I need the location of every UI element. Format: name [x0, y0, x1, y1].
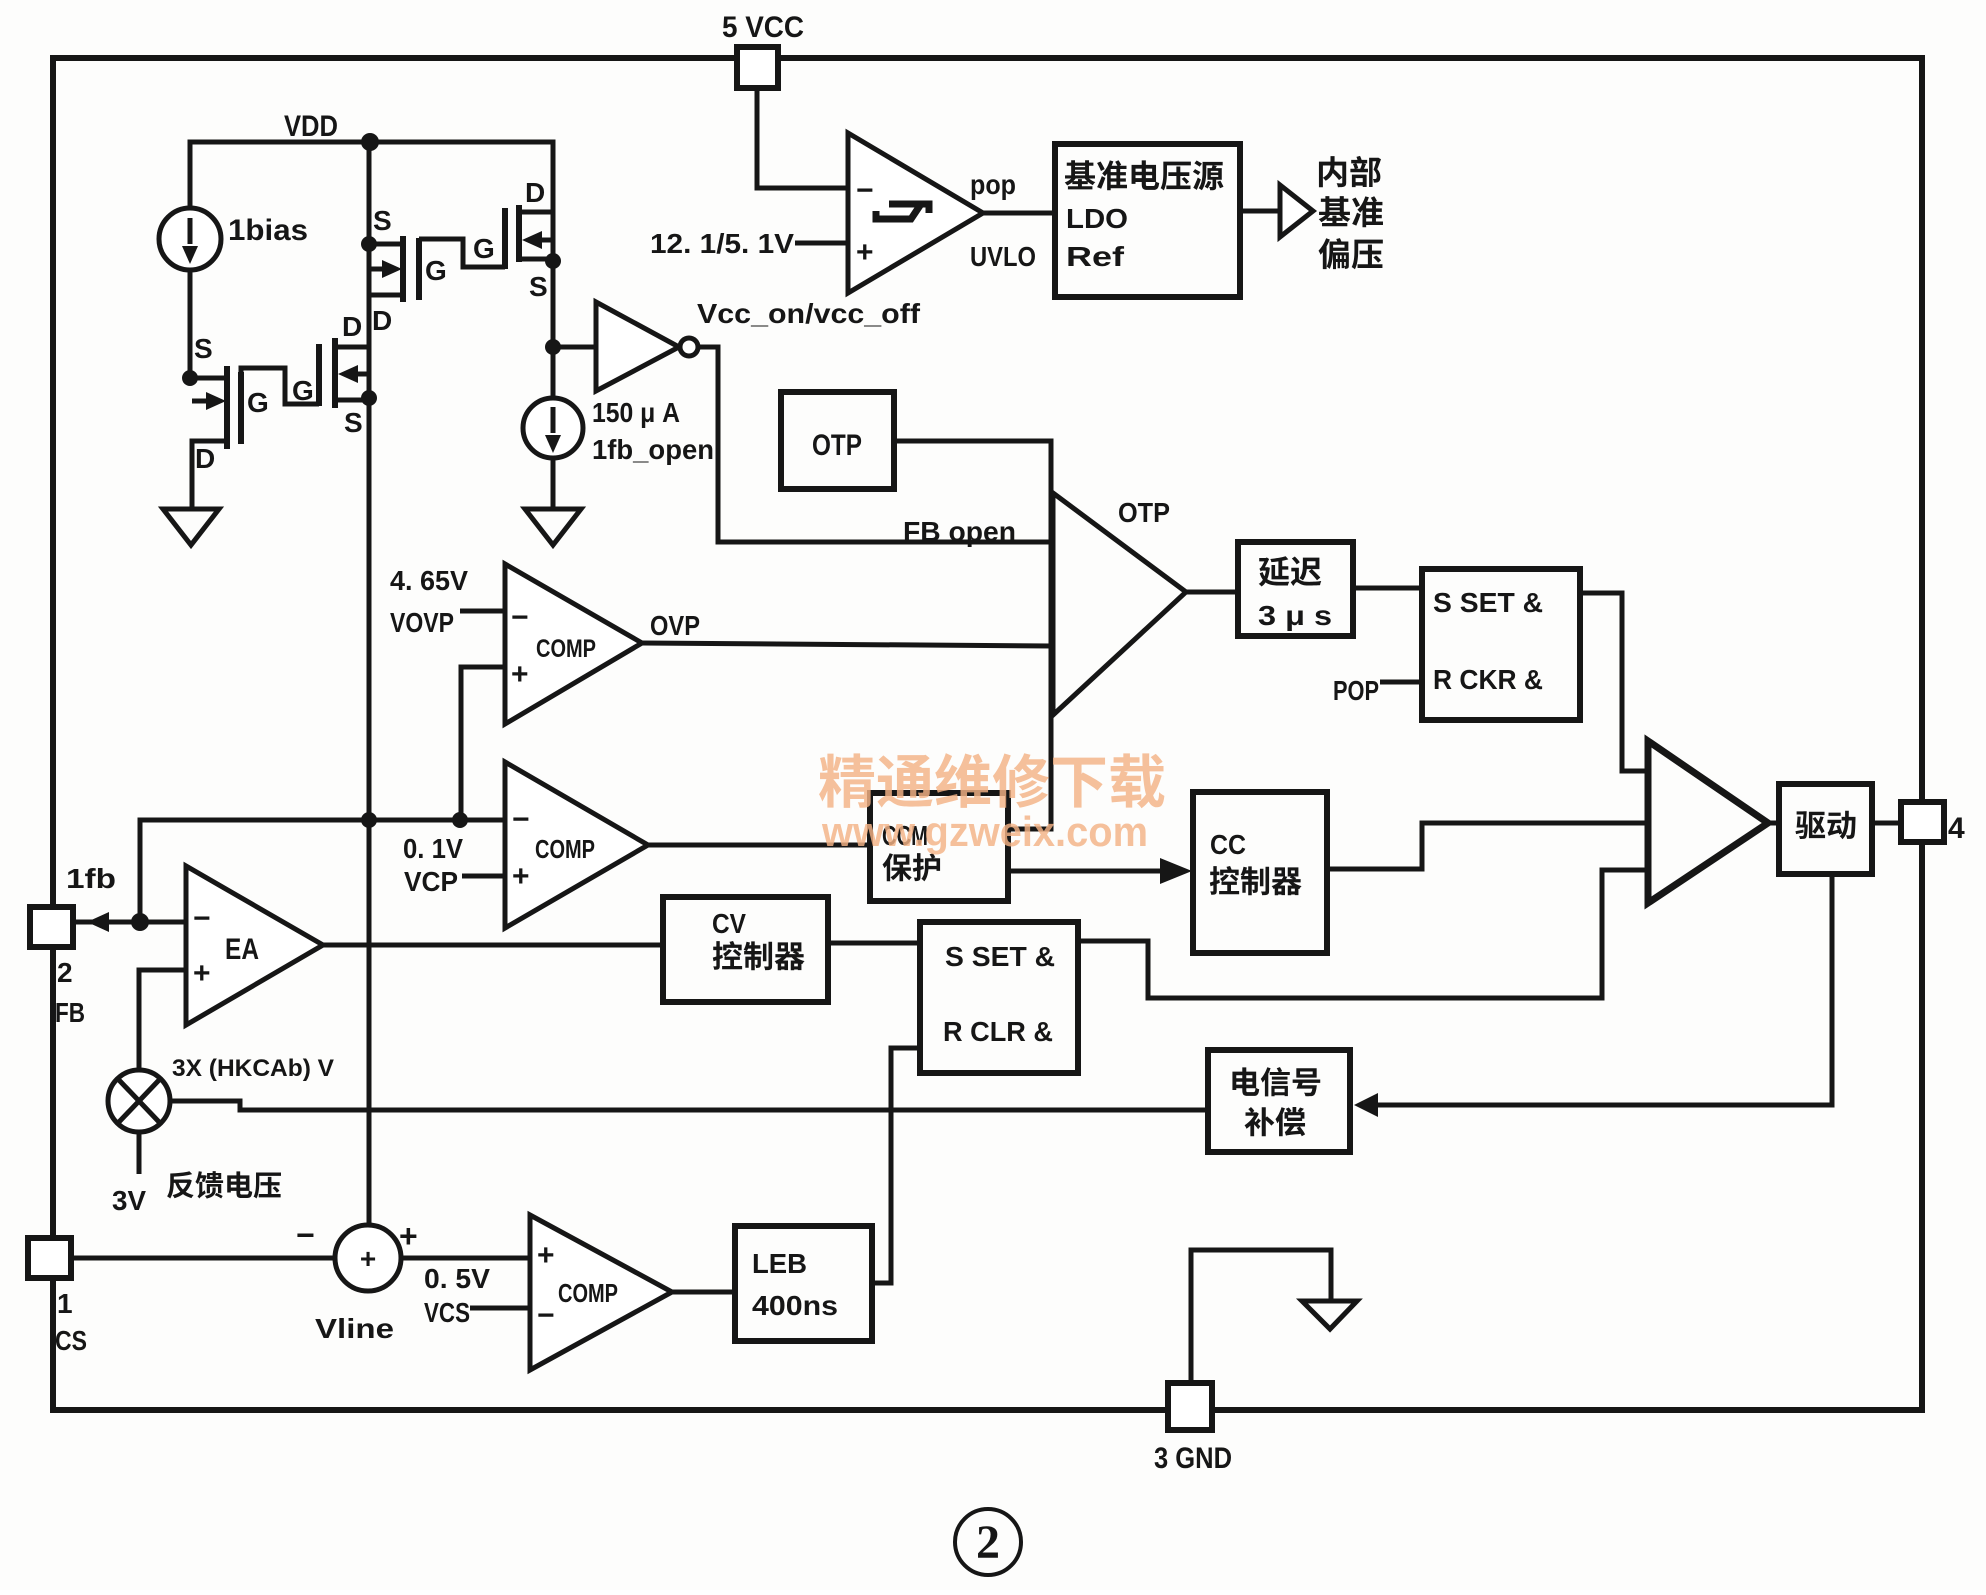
pin 4: [1901, 802, 1944, 842]
wire combiner to delay: [1186, 590, 1238, 595]
node M3 source: [361, 236, 377, 252]
wire LEB to SR2: [872, 1048, 920, 1283]
svg-text:0. 5V: 0. 5V: [424, 1263, 490, 1294]
svg-text:3V: 3V: [112, 1185, 146, 1216]
svg-text:−: −: [537, 1299, 555, 1332]
svg-text:OTP: OTP: [1118, 497, 1170, 528]
label fankui dianya: [167, 1171, 194, 1198]
wire COMP1 plus from 0.1V node: [461, 667, 505, 820]
pin 1 CS: [28, 1238, 71, 1278]
svg-text:Vline: Vline: [315, 1313, 394, 1344]
label pianya: [1318, 238, 1348, 269]
svg-text:1fb_open: 1fb_open: [592, 434, 714, 465]
wire VCP to plus: [462, 874, 505, 879]
svg-text:D: D: [525, 177, 545, 208]
svg-text:COMP: COMP: [535, 834, 595, 864]
node 0.1V-B: [452, 812, 468, 828]
node VDD junction: [361, 133, 379, 151]
svg-text:G: G: [473, 233, 495, 264]
svg-text:−: −: [511, 601, 529, 634]
svg-text:−: −: [193, 902, 211, 935]
svg-text:VCP: VCP: [404, 866, 458, 897]
op-amp COMP VCP: [505, 762, 648, 928]
pin 2 FB: [30, 907, 73, 947]
svg-text:S: S: [344, 407, 363, 438]
wire 1bias to M1 source: [188, 270, 193, 378]
VDD rail: [190, 142, 553, 212]
wire tap to inverter: [553, 345, 596, 350]
node inverter tap: [545, 339, 561, 355]
svg-text:VOVP: VOVP: [390, 607, 454, 638]
svg-text:−: −: [512, 803, 530, 836]
svg-text:D: D: [372, 305, 392, 336]
wire SR2 to driver triangle: [1078, 870, 1648, 998]
label baohu: [883, 853, 912, 881]
label neibu: [1319, 156, 1346, 187]
svg-text:LDO: LDO: [1066, 203, 1128, 234]
wire COMP2 to CCM: [648, 843, 870, 848]
wire OVP output: [642, 643, 1051, 646]
wire pin1 to summer: [71, 1256, 335, 1261]
wire POP to SR1: [1380, 680, 1422, 685]
transistor M2: [316, 344, 322, 406]
wire EA minus to pin2: [73, 920, 186, 925]
svg-text:3 GND: 3 GND: [1154, 1442, 1232, 1475]
ground symbol right: [1302, 1301, 1357, 1329]
svg-text:OTP: OTP: [812, 429, 862, 462]
block dianxinhao buchang: [1208, 1050, 1350, 1152]
block SR2 set-clr: [920, 922, 1078, 1073]
label jizhun-dianyayuan: [1065, 160, 1096, 189]
svg-text:LEB: LEB: [752, 1248, 807, 1279]
wire COMP3 to LEB: [672, 1290, 735, 1295]
inverter bubble: [680, 338, 698, 356]
label qudong: [1795, 811, 1825, 839]
wire multiplier out: [170, 1101, 1208, 1110]
svg-text:VDD: VDD: [284, 110, 338, 143]
svg-text:S SET &: S SET &: [1433, 587, 1543, 618]
op-amp EA: [186, 866, 323, 1025]
svg-text:COMP: COMP: [558, 1278, 618, 1308]
wire M1 gate to M2 gate: [241, 368, 319, 404]
wire M4 down to 150uA: [551, 212, 556, 398]
wire summer to COMP3: [401, 1256, 530, 1261]
svg-text:+: +: [193, 957, 211, 990]
svg-text:FB: FB: [55, 997, 85, 1028]
wire inverter out FB open: [698, 347, 1051, 542]
wire CCM to CC controller: [1008, 869, 1162, 874]
node M1 source: [182, 370, 198, 386]
svg-text:0. 1V: 0. 1V: [403, 833, 463, 864]
label CV kongzhiqi: [713, 941, 742, 970]
multiplier 3X: [108, 1070, 170, 1132]
svg-text:5 VCC: 5 VCC: [722, 11, 804, 44]
current source 1bias: [159, 208, 221, 270]
triangle OTP combiner: [1053, 493, 1186, 715]
svg-text:2: 2: [976, 1516, 1000, 1569]
svg-text:+: +: [399, 1218, 418, 1254]
pin 3 GND: [1168, 1383, 1212, 1430]
wire CV to SR2: [828, 941, 920, 946]
wire OTP to combiner: [894, 441, 1051, 829]
svg-text:www.gzweix.com: www.gzweix.com: [821, 808, 1148, 855]
label yanchi: [1259, 556, 1290, 586]
svg-text:POP: POP: [1333, 675, 1379, 706]
wire UVLO out to LDO box: [983, 211, 1055, 216]
svg-text:+: +: [537, 1239, 555, 1272]
svg-text:CV: CV: [712, 908, 746, 939]
wire delay to SR1: [1353, 586, 1422, 591]
svg-text:COMP: COMP: [536, 635, 596, 663]
svg-text:FB open: FB open: [903, 516, 1016, 547]
label CC kongzhiqi: [1210, 866, 1239, 895]
svg-text:1bias: 1bias: [228, 214, 308, 247]
ground below 150uA: [525, 509, 581, 545]
block SR1 set-ckr: [1422, 569, 1580, 720]
svg-text:S: S: [194, 333, 213, 364]
triangle driver: [1648, 741, 1768, 903]
svg-text:G: G: [425, 255, 447, 286]
block LEB 400ns: [735, 1226, 872, 1341]
wire SR1 to driver triangle: [1580, 593, 1648, 771]
block qudong drive: [1779, 784, 1872, 874]
svg-text:4: 4: [1948, 812, 1965, 845]
block CC controller: [1193, 792, 1327, 953]
svg-text:+: +: [856, 236, 874, 269]
svg-text:G: G: [247, 387, 269, 418]
svg-text:2: 2: [57, 957, 73, 988]
svg-text:S: S: [529, 271, 548, 302]
block delay 3us: [1238, 542, 1353, 636]
wire qudong to pin4: [1872, 821, 1901, 826]
wire VOVP to minus: [460, 609, 505, 614]
svg-text:1: 1: [57, 1288, 73, 1319]
wire VCC pin to UVLO comparator: [757, 88, 846, 188]
label dianxinhao: [1232, 1067, 1259, 1096]
wire pin3 to ground symbol: [1191, 1250, 1331, 1383]
node M4 source-stub: [545, 253, 561, 269]
wire 150uA to ground: [551, 458, 556, 509]
svg-text:−: −: [296, 1217, 315, 1253]
IC outer boundary: [53, 58, 1922, 1410]
op-amp COMP OVP: [505, 564, 642, 724]
node 0.1V-A: [361, 812, 377, 828]
svg-text:1fb: 1fb: [66, 863, 116, 894]
summing junction: [335, 1225, 401, 1291]
svg-text:Vcc_on/vcc_off: Vcc_on/vcc_off: [697, 298, 921, 329]
label buchang: [1245, 1107, 1275, 1136]
wire CC to driver triangle: [1327, 823, 1648, 869]
svg-text:UVLO: UVLO: [970, 241, 1036, 272]
svg-text:R CKR &: R CKR &: [1433, 664, 1543, 695]
wire qudong to compensator: [1378, 874, 1832, 1105]
svg-text:CC: CC: [1210, 829, 1246, 860]
transistor M3: [400, 236, 406, 302]
svg-text:S SET &: S SET &: [945, 941, 1055, 972]
transistor M4: [502, 208, 508, 269]
svg-text:D: D: [342, 311, 362, 342]
svg-text:400ns: 400ns: [752, 1290, 838, 1321]
svg-text:12. 1/5. 1V: 12. 1/5. 1V: [650, 228, 794, 259]
svg-text:Ref: Ref: [1066, 241, 1125, 272]
svg-text:OVP: OVP: [650, 610, 700, 641]
block reference LDO: [1055, 144, 1240, 297]
wire 0.1V rail: [140, 820, 505, 922]
svg-text:150 μ A: 150 μ A: [592, 397, 680, 428]
inverter vcc_on: [596, 302, 679, 391]
svg-text:3X (HKCAb) V: 3X (HKCAb) V: [172, 1055, 334, 1082]
svg-text:S: S: [373, 205, 392, 236]
block CCM protect: [870, 793, 1008, 901]
block OTP: [781, 392, 894, 489]
figure number 2: [955, 1509, 1021, 1575]
svg-text:D: D: [195, 443, 215, 474]
ground below M1: [163, 509, 219, 545]
wire M3 gate to M4 gate: [419, 239, 505, 267]
svg-text:R CLR &: R CLR &: [943, 1016, 1053, 1047]
UVLO hysteresis symbol: [876, 204, 929, 219]
watermark jingtong weixiu xiazai: [819, 753, 1164, 808]
transistor M1: [190, 376, 227, 381]
svg-text:3 μ s: 3 μ s: [1258, 600, 1332, 631]
svg-text:+: +: [511, 658, 529, 691]
op-amp UVLO comparator: [848, 133, 983, 293]
watermark gzweix url: [821, 808, 1148, 855]
op-amp COMP CS: [530, 1215, 672, 1370]
wire multiplier 3V: [137, 1132, 142, 1174]
svg-text:+: +: [512, 860, 530, 893]
label jizhun: [1319, 196, 1351, 226]
svg-text:EA: EA: [225, 933, 259, 966]
svg-text:G: G: [292, 375, 314, 406]
node EA minus: [131, 913, 149, 931]
wire 12.1/5.1V to + input: [795, 241, 846, 246]
wire VCS to minus: [470, 1306, 530, 1311]
block CV controller: [663, 897, 828, 1002]
wire LDO to buffer: [1240, 209, 1280, 214]
svg-text:4. 65V: 4. 65V: [390, 565, 468, 596]
node M2 drain-stub: [361, 390, 377, 406]
svg-text:CS: CS: [55, 1325, 87, 1356]
wire VDD center vertical: [367, 142, 372, 1225]
svg-text:pop: pop: [970, 169, 1016, 200]
current source 150uA: [523, 398, 583, 458]
pin 5 VCC: [737, 47, 778, 88]
svg-text:+: +: [360, 1243, 376, 1274]
buffer triangle internal ref: [1280, 185, 1313, 237]
wire EA plus to multiplier: [139, 970, 186, 1070]
svg-text:−: −: [856, 174, 874, 207]
wire EA out to CV: [323, 943, 663, 948]
svg-text:VCS: VCS: [424, 1297, 470, 1328]
wire driver tri to qudong: [1768, 821, 1779, 826]
